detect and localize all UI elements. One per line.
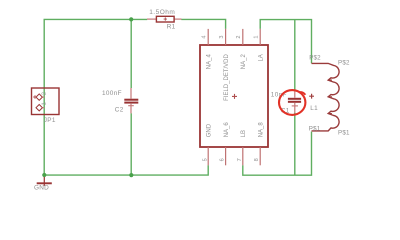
- pin name LA: [259, 54, 265, 61]
- pad label P$1 right: [338, 129, 350, 136]
- wire bottom rail left to pin5: [44, 165, 208, 175]
- pin 8 stub: [259, 147, 261, 165]
- pin name NA_6: [224, 122, 230, 138]
- L1 origin cross: [309, 94, 314, 99]
- svg-text:6: 6: [220, 158, 226, 161]
- connector JP1: [32, 88, 60, 115]
- pin name NA_4: [207, 54, 213, 70]
- svg-text:R1: R1: [167, 24, 176, 31]
- name label C1: [281, 107, 290, 114]
- svg-text:8: 8: [254, 158, 260, 161]
- pad label P$2 right: [338, 59, 350, 66]
- pin 1 stub: [259, 29, 261, 45]
- svg-text:GND: GND: [207, 123, 213, 137]
- pin number 8: [254, 158, 260, 161]
- pin number 5: [202, 158, 208, 161]
- pin number 1: [254, 35, 260, 38]
- svg-text:LA: LA: [259, 54, 265, 61]
- pin name GND: [207, 123, 213, 137]
- capacitor C1: [288, 92, 301, 113]
- wire pin7 to L1 bottom rail: [243, 132, 312, 176]
- pin name FIELD_DET/VDD: [224, 54, 230, 101]
- ground symbol GND: [37, 177, 52, 186]
- pin name NA_2: [241, 54, 247, 70]
- value label 100nF: [102, 90, 122, 97]
- pin number 3: [219, 35, 225, 38]
- wire top rail right of R1 to pin3: [181, 19, 225, 29]
- pin number 2 of JP1: [42, 92, 48, 95]
- wire left vertical net VDD: [43, 19, 45, 175]
- pin 2 stub: [242, 29, 244, 45]
- svg-text:4: 4: [202, 35, 208, 38]
- svg-text:P$1: P$1: [309, 126, 321, 133]
- svg-text:NA_8: NA_8: [259, 122, 265, 138]
- pin number 6: [220, 158, 226, 161]
- svg-text:2: 2: [42, 92, 48, 95]
- pin number 4: [202, 35, 208, 38]
- svg-text:L1: L1: [310, 105, 318, 112]
- pin 3 stub: [225, 29, 227, 45]
- svg-text:NA_4: NA_4: [207, 54, 213, 70]
- svg-text:FIELD_DET/VDD: FIELD_DET/VDD: [224, 54, 230, 101]
- inductor L1: [312, 63, 340, 130]
- pin 4 stub: [207, 29, 209, 45]
- svg-text:1: 1: [254, 35, 260, 38]
- pad label P$1 left: [309, 126, 321, 133]
- pad label P$2 left: [309, 54, 321, 61]
- pin 7 stub: [242, 147, 244, 165]
- pin 6 stub: [225, 147, 227, 165]
- svg-text:JP1: JP1: [44, 117, 56, 124]
- svg-text:P$2: P$2: [338, 59, 350, 66]
- pin number 1 of JP1: [42, 102, 48, 105]
- resistor R1: [147, 16, 182, 22]
- svg-text:GND: GND: [34, 185, 49, 192]
- name label JP1: [44, 117, 56, 124]
- svg-text:7: 7: [237, 158, 243, 161]
- wire C1 branch vertical: [294, 20, 296, 176]
- svg-text:NA_6: NA_6: [224, 122, 230, 138]
- pin 5 stub: [207, 147, 209, 165]
- svg-text:1.5Ohm: 1.5Ohm: [149, 9, 175, 16]
- svg-text:2: 2: [236, 35, 242, 38]
- value label 10nF: [271, 91, 287, 98]
- pin number 2: [236, 35, 242, 38]
- name label C2: [115, 107, 124, 114]
- junction dot node C2 bottom: [129, 173, 133, 177]
- svg-text:LB: LB: [241, 130, 247, 137]
- junction dot node GND corner: [42, 173, 46, 177]
- name label R1: [167, 24, 176, 31]
- capacitor C2: [124, 88, 138, 113]
- svg-text:5: 5: [202, 158, 208, 161]
- svg-text:P$2: P$2: [309, 54, 321, 61]
- junction dot node at R1 branch: [129, 17, 133, 21]
- pin name LB: [241, 130, 247, 137]
- svg-text:100nF: 100nF: [102, 90, 122, 97]
- name label L1: [310, 105, 318, 112]
- value label 1.5Ohm: [149, 9, 175, 16]
- IC U1 FIELD_DET: [200, 45, 268, 147]
- svg-text:NA_2: NA_2: [241, 54, 247, 70]
- annotation circle highlight around C1: [279, 90, 305, 115]
- svg-text:C2: C2: [115, 107, 124, 114]
- ground label GND: [34, 185, 49, 192]
- wire C2 branch vertical: [130, 19, 132, 175]
- svg-text:P$1: P$1: [338, 129, 350, 136]
- svg-text:3: 3: [219, 35, 225, 38]
- wire top rail left segment: [44, 18, 148, 20]
- wire pin1 to L1 top: [260, 20, 311, 64]
- pin number 7: [237, 158, 243, 161]
- pin name NA_8: [259, 122, 265, 138]
- svg-text:1: 1: [42, 102, 48, 105]
